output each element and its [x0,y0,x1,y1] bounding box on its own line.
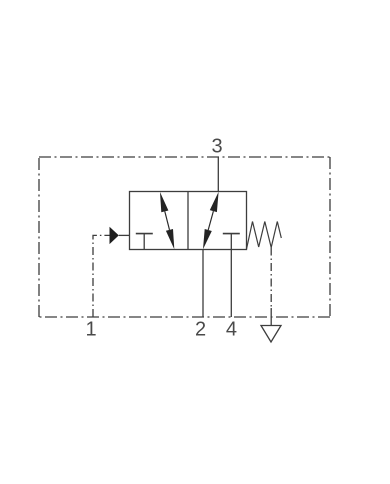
pilot drain line (dash-dot) [270,248,272,311]
left-box flow arrow (double headed) [160,192,174,249]
port 3 line [217,157,219,192]
port 4 line (stem of blocked port) [230,234,232,317]
valve position divider [187,192,189,250]
svg-text:1: 1 [85,319,96,341]
return spring [247,222,282,250]
right-box flow arrow (double headed) [203,192,219,250]
valve body outline (two-position envelope) [130,192,247,250]
svg-text:2: 2 [195,319,206,341]
left-box blocked port T symbol [136,234,153,250]
right-box blocked port T symbol [223,233,240,235]
wire from pilot arrowhead to valve body [119,234,130,236]
drain line solid end at vent [270,308,272,326]
enclosure frame (dash-dot boundary) [39,157,330,317]
pilot line (dash-dot) from port 1 [93,235,110,317]
port 2 line [202,249,204,317]
pilot actuator arrowhead [110,227,119,244]
vent / tank triangle [261,326,281,343]
svg-text:4: 4 [226,319,237,341]
svg-text:3: 3 [211,136,222,158]
